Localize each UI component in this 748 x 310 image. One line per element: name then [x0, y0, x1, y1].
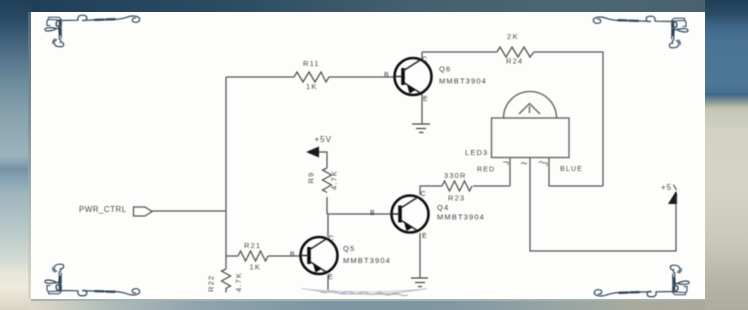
svg-text:2K: 2K — [507, 32, 519, 41]
svg-text:RED: RED — [477, 167, 495, 174]
svg-text:C: C — [329, 236, 334, 243]
svg-text:E: E — [422, 233, 427, 240]
svg-text:B: B — [370, 210, 375, 217]
svg-text:R22: R22 — [207, 275, 216, 292]
svg-text:C: C — [422, 57, 427, 64]
svg-text:R24: R24 — [506, 57, 523, 66]
svg-text:MMBT3904: MMBT3904 — [343, 256, 391, 265]
svg-text:Q4: Q4 — [437, 203, 449, 212]
svg-text:LED3: LED3 — [465, 148, 488, 157]
svg-text:R9: R9 — [307, 172, 316, 184]
svg-text:+5: +5 — [661, 183, 672, 192]
svg-text:R23: R23 — [448, 194, 465, 203]
svg-text:BLUE: BLUE — [560, 166, 583, 173]
svg-text:1K: 1K — [306, 82, 317, 91]
svg-text:R11: R11 — [303, 59, 320, 68]
svg-text:Q5: Q5 — [343, 244, 355, 253]
svg-text:330R: 330R — [444, 171, 467, 180]
svg-text:B: B — [384, 72, 389, 79]
svg-text:B: B — [290, 252, 295, 259]
svg-text:R21: R21 — [244, 241, 261, 250]
svg-text:4.7K: 4.7K — [330, 170, 339, 190]
svg-text:E: E — [328, 274, 333, 281]
svg-text:MMBT3904: MMBT3904 — [437, 213, 485, 222]
svg-text:C: C — [421, 191, 426, 198]
svg-text:4.7K: 4.7K — [234, 272, 243, 292]
svg-text:Q6: Q6 — [439, 65, 451, 74]
svg-text:MMBT3904: MMBT3904 — [439, 77, 487, 86]
svg-text:E: E — [423, 96, 428, 103]
svg-text:+5V: +5V — [315, 135, 332, 144]
svg-text:PWR_CTRL: PWR_CTRL — [79, 205, 127, 214]
svg-text:1K: 1K — [250, 263, 261, 272]
